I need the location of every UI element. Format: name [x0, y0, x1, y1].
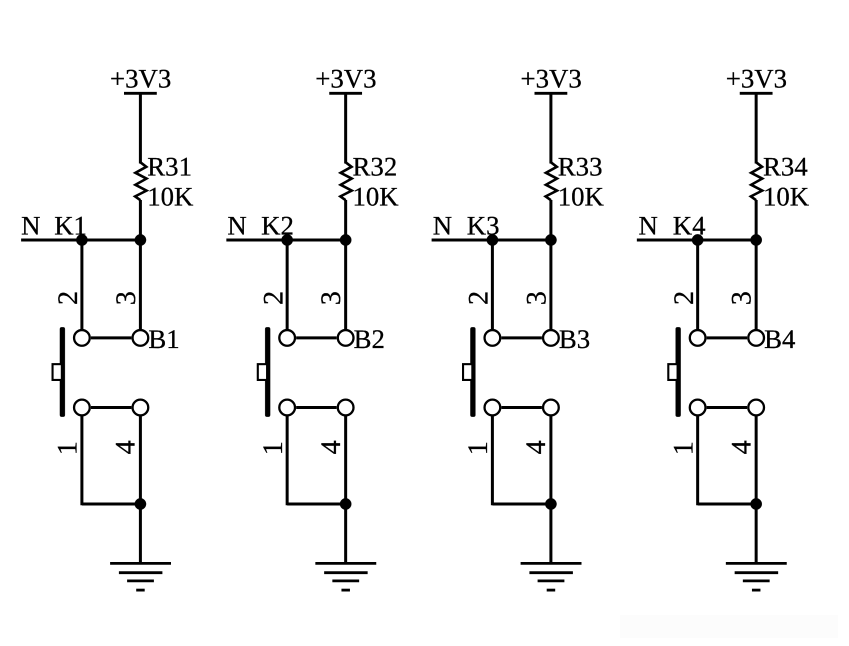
wire — [491, 415, 494, 505]
wire — [696, 415, 699, 505]
svg-text:4: 4 — [111, 440, 142, 454]
svg-text:B3: B3 — [559, 324, 590, 354]
net label N_K3 — [433, 210, 500, 240]
push button B4 pin 2 terminal — [690, 330, 706, 346]
ground — [726, 563, 787, 590]
svg-text:3: 3 — [727, 291, 758, 305]
wire — [698, 503, 757, 506]
svg-text:N: N — [638, 210, 657, 240]
power +3V3 (R31 column) — [110, 64, 171, 94]
power +3V3 (R32 column) — [315, 64, 376, 94]
wire — [755, 240, 758, 330]
net label N_K1 — [21, 210, 87, 240]
push button B1 pin 4 terminal — [133, 400, 149, 416]
push button B3 pin 2 terminal — [485, 330, 501, 346]
wire — [91, 336, 131, 339]
wire — [549, 93, 552, 163]
svg-text:10K: 10K — [763, 181, 810, 211]
wire — [139, 415, 142, 504]
junction — [545, 234, 556, 245]
wire — [139, 93, 142, 163]
wire — [344, 504, 347, 563]
svg-text:2: 2 — [53, 291, 84, 305]
wire — [501, 406, 542, 409]
wire — [139, 504, 142, 563]
push button B1 actuator — [53, 327, 65, 416]
svg-text:3: 3 — [521, 291, 552, 305]
junction — [135, 234, 146, 245]
wire net N_K4 — [637, 239, 756, 242]
junction — [487, 234, 498, 245]
wire — [286, 240, 289, 330]
wire — [755, 200, 758, 241]
svg-text:1: 1 — [463, 441, 494, 455]
svg-text:1: 1 — [668, 441, 699, 455]
svg-text:10K: 10K — [352, 181, 399, 211]
wire — [344, 415, 347, 504]
wire — [91, 406, 131, 409]
wire net N_K1 — [21, 239, 140, 242]
junction — [692, 234, 703, 245]
wire — [344, 200, 347, 241]
wire — [296, 406, 337, 409]
svg-text:1: 1 — [53, 441, 84, 455]
wire — [80, 240, 83, 330]
ground — [521, 563, 582, 590]
junction — [340, 498, 351, 509]
ground — [110, 563, 171, 590]
wire — [549, 240, 552, 330]
svg-text:2: 2 — [258, 291, 289, 305]
resistor R32 — [340, 162, 351, 200]
wire — [296, 336, 337, 339]
svg-text:N: N — [21, 210, 40, 240]
svg-text:2: 2 — [464, 291, 495, 305]
svg-text:2: 2 — [669, 291, 700, 305]
push button B3 pin 1 terminal — [485, 400, 501, 416]
push button B2 pin 3 terminal — [338, 330, 354, 346]
resistor R34 — [751, 162, 762, 200]
junction — [750, 234, 761, 245]
power +3V3 (R34 column) — [726, 64, 787, 94]
wire — [549, 504, 552, 563]
svg-text:4: 4 — [521, 440, 552, 454]
svg-text:10K: 10K — [147, 181, 194, 211]
junction — [340, 234, 351, 245]
net label N_K4 — [638, 210, 705, 240]
svg-text:3: 3 — [111, 291, 142, 305]
push button B1 pin 1 terminal — [74, 400, 90, 416]
junction — [135, 498, 146, 509]
resistor R33 — [546, 162, 557, 200]
push button B2 actuator — [258, 327, 270, 416]
svg-text:B1: B1 — [148, 324, 179, 354]
svg-text:+3V3: +3V3 — [315, 64, 376, 94]
svg-text:R31: R31 — [147, 152, 192, 182]
wire — [755, 504, 758, 563]
wire — [707, 336, 748, 339]
svg-text:1: 1 — [258, 441, 289, 455]
push button B1 pin 3 terminal — [133, 330, 149, 346]
svg-text:+3V3: +3V3 — [726, 64, 787, 94]
wire — [755, 415, 758, 504]
wire — [139, 240, 142, 330]
svg-text:+3V3: +3V3 — [110, 64, 171, 94]
wire — [286, 415, 289, 505]
wire — [492, 503, 551, 506]
wire — [139, 200, 142, 241]
wire — [344, 93, 347, 163]
ground — [315, 563, 376, 590]
junction — [281, 234, 292, 245]
push button B2 pin 4 terminal — [338, 400, 354, 416]
wire — [755, 93, 758, 163]
svg-text:R34: R34 — [763, 152, 808, 182]
wire — [549, 415, 552, 504]
wire — [82, 503, 140, 506]
net label N_K2 — [227, 210, 294, 240]
push button B4 pin 4 terminal — [748, 400, 764, 416]
wire net N_K2 — [226, 239, 345, 242]
wire — [707, 406, 748, 409]
push button B3 pin 3 terminal — [543, 330, 559, 346]
svg-text:3: 3 — [316, 291, 347, 305]
wire — [549, 200, 552, 241]
svg-text:4: 4 — [316, 440, 347, 454]
wire — [696, 240, 699, 330]
svg-text:B2: B2 — [354, 324, 385, 354]
wire — [80, 415, 83, 505]
svg-text:+3V3: +3V3 — [520, 64, 581, 94]
push button B4 pin 3 terminal — [748, 330, 764, 346]
push button B3 actuator — [463, 327, 475, 416]
wire — [501, 336, 542, 339]
svg-text:B4: B4 — [764, 324, 795, 354]
svg-text:N: N — [227, 210, 246, 240]
push button B2 pin 2 terminal — [279, 330, 295, 346]
wire net N_K3 — [432, 239, 551, 242]
svg-text:N: N — [433, 210, 452, 240]
push button B3 pin 4 terminal — [543, 400, 559, 416]
push button B2 pin 1 terminal — [279, 400, 295, 416]
svg-text:R33: R33 — [558, 152, 603, 182]
junction — [76, 234, 87, 245]
resistor R31 — [135, 162, 146, 200]
push button B4 actuator — [668, 327, 680, 416]
junction — [545, 498, 556, 509]
push button B4 pin 1 terminal — [690, 400, 706, 416]
svg-text:10K: 10K — [558, 181, 605, 211]
power +3V3 (R33 column) — [520, 64, 581, 94]
svg-text:R32: R32 — [353, 152, 398, 182]
svg-text:4: 4 — [726, 440, 757, 454]
push button B1 pin 2 terminal — [74, 330, 90, 346]
wire — [491, 240, 494, 330]
wire — [287, 503, 346, 506]
junction — [750, 498, 761, 509]
wire — [344, 240, 347, 330]
